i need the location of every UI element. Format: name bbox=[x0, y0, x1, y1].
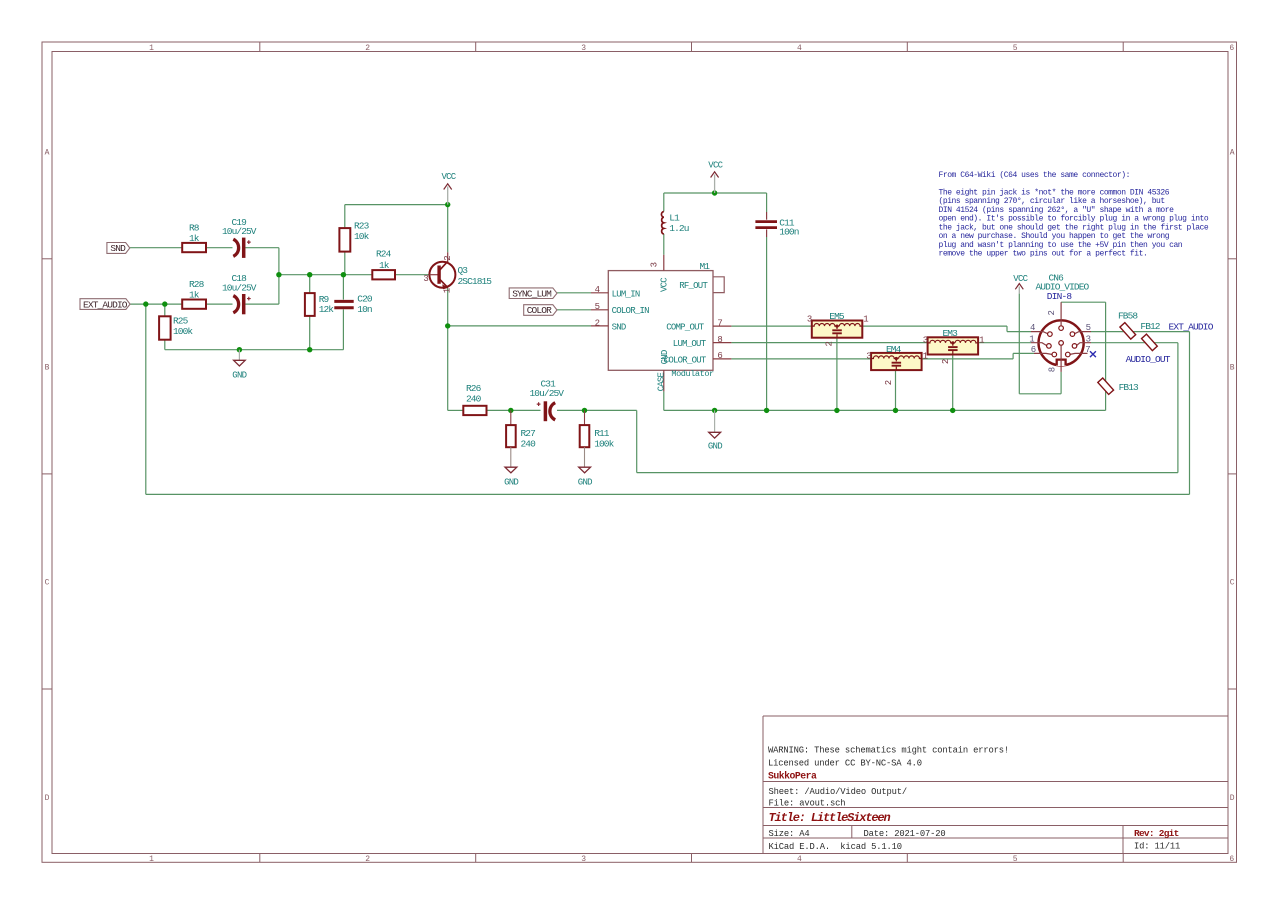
capacitor C20 bbox=[334, 294, 373, 315]
gnd symbol below M1 vcc rail bbox=[708, 410, 722, 451]
svg-text:3: 3 bbox=[581, 855, 586, 864]
svg-text:open end). It's possible to fo: open end). It's possible to forcibly plu… bbox=[939, 215, 1209, 224]
wire to R26 bbox=[448, 409, 464, 411]
global label COLOR bbox=[524, 305, 557, 317]
wire EXT_AUDIO loop left vertical bbox=[145, 304, 147, 494]
svg-text:EXT_AUDIO: EXT_AUDIO bbox=[83, 299, 128, 310]
wire bend to DIN pin4 bbox=[1007, 331, 1031, 333]
svg-text:1: 1 bbox=[1029, 334, 1034, 344]
junction bbox=[307, 272, 312, 277]
svg-text:1.2u: 1.2u bbox=[669, 223, 688, 234]
svg-text:1k: 1k bbox=[379, 260, 390, 271]
junction bbox=[712, 408, 717, 413]
no-connect X at pin7 bbox=[1090, 351, 1096, 357]
filter EM5 bbox=[807, 311, 868, 346]
svg-text:DIN-8: DIN-8 bbox=[1047, 291, 1073, 302]
wire R23 bottom bbox=[344, 252, 346, 275]
svg-text:3: 3 bbox=[423, 274, 428, 284]
svg-text:A: A bbox=[45, 149, 50, 158]
wire audio out bottom run bbox=[637, 472, 1178, 474]
vcc symbol above M1 bbox=[708, 161, 723, 193]
wire C18 to corner bbox=[246, 303, 279, 305]
svg-text:3: 3 bbox=[807, 315, 812, 325]
svg-text:6: 6 bbox=[717, 351, 722, 361]
svg-text:Q3: Q3 bbox=[458, 265, 469, 276]
svg-text:100k: 100k bbox=[173, 326, 193, 337]
svg-text:12k: 12k bbox=[319, 304, 335, 315]
wire EXT_AUDIO loop right vertical bbox=[1189, 332, 1191, 495]
svg-text:5: 5 bbox=[1013, 44, 1018, 53]
title block text bbox=[768, 746, 1180, 853]
resistor R23 bbox=[339, 221, 369, 252]
svg-text:7: 7 bbox=[1085, 345, 1090, 355]
wire DIN pin2 top run bbox=[1061, 301, 1106, 303]
wire M1 VCC rail bbox=[664, 192, 767, 194]
wire audio out right vertical bbox=[1177, 343, 1179, 473]
wire DIN pin5 to FB58 to corner bbox=[1091, 331, 1190, 333]
svg-text:Size: A4: Size: A4 bbox=[769, 829, 810, 839]
wire DIN shield down through FB13 bbox=[1105, 302, 1107, 410]
resistor R27 bbox=[506, 410, 536, 449]
modulator M1 bbox=[591, 255, 731, 392]
svg-text:3: 3 bbox=[1086, 334, 1091, 344]
wire R28 to C18 bbox=[206, 303, 233, 305]
svg-text:2: 2 bbox=[824, 342, 834, 347]
svg-text:R23: R23 bbox=[354, 221, 370, 232]
svg-text:Sheet: /Audio/Video Output/: Sheet: /Audio/Video Output/ bbox=[769, 787, 907, 797]
title block bbox=[763, 716, 1228, 854]
svg-text:File: avout.sch: File: avout.sch bbox=[769, 798, 846, 808]
svg-text:AUDIO_OUT: AUDIO_OUT bbox=[1126, 354, 1171, 365]
wire VCC top rail bbox=[345, 204, 448, 206]
ferrite bead FB12 bbox=[1140, 321, 1160, 350]
svg-text:2SC1815: 2SC1815 bbox=[458, 276, 493, 287]
junction bbox=[764, 408, 769, 413]
resistor R11 bbox=[580, 410, 615, 449]
svg-text:SND: SND bbox=[110, 243, 126, 254]
svg-text:EXT_AUDIO: EXT_AUDIO bbox=[1169, 321, 1214, 332]
transistor Q3 2SC1815 bbox=[423, 252, 492, 293]
svg-text:SND: SND bbox=[612, 323, 626, 333]
wire emitter to M1 SND pin bbox=[448, 325, 591, 327]
wire R9 top bbox=[309, 275, 311, 293]
svg-text:LUM_IN: LUM_IN bbox=[612, 289, 640, 299]
svg-text:GND: GND bbox=[708, 442, 722, 452]
wire Q3 emitter down bbox=[447, 288, 449, 411]
svg-text:FB13: FB13 bbox=[1119, 382, 1139, 393]
wire R24 to Q3 base bbox=[395, 274, 429, 276]
svg-text:(pins spanning 270°, circular: (pins spanning 270°, circular like a hor… bbox=[939, 197, 1165, 206]
resistor R25 bbox=[159, 316, 193, 340]
svg-text:FB12: FB12 bbox=[1140, 321, 1160, 332]
svg-text:The eight pin jack is *not* th: The eight pin jack is *not* the more com… bbox=[939, 188, 1170, 197]
svg-text:10u/25V: 10u/25V bbox=[222, 283, 257, 294]
wire EM3 to DIN pin1 bbox=[978, 342, 1031, 344]
wire M1 CASE to gnd rail bbox=[663, 391, 665, 410]
wire gnd rail bbox=[664, 409, 1106, 411]
wire C20 bottom bbox=[342, 309, 344, 349]
svg-text:VCC: VCC bbox=[660, 277, 670, 292]
svg-text:2: 2 bbox=[365, 44, 370, 53]
svg-text:Title: LittleSixteen: Title: LittleSixteen bbox=[769, 811, 891, 825]
svg-text:10k: 10k bbox=[354, 231, 370, 242]
ferrite bead FB13 bbox=[1098, 378, 1139, 394]
svg-text:6: 6 bbox=[1229, 44, 1234, 53]
svg-text:GND: GND bbox=[232, 371, 246, 381]
wire EM3 down to gnd rail bbox=[952, 355, 954, 411]
svg-text:240: 240 bbox=[521, 438, 537, 449]
svg-text:5: 5 bbox=[1013, 855, 1018, 864]
capacitor C19 bbox=[222, 217, 257, 258]
wire R8 to C19 bbox=[206, 247, 233, 249]
junction bbox=[307, 347, 312, 352]
svg-text:3: 3 bbox=[650, 262, 660, 267]
svg-text:4: 4 bbox=[595, 285, 600, 295]
svg-text:RF_OUT: RF_OUT bbox=[679, 281, 708, 291]
wire COMP_OUT to EM5 bbox=[731, 325, 811, 327]
wire SND row: label to R8 bbox=[130, 247, 182, 249]
svg-text:2: 2 bbox=[941, 359, 951, 364]
svg-text:6: 6 bbox=[1229, 855, 1234, 864]
svg-text:A: A bbox=[1230, 149, 1235, 158]
svg-text:100k: 100k bbox=[594, 438, 614, 449]
gnd symbol under R11 bbox=[578, 447, 592, 487]
svg-text:plug and wasn't planning to us: plug and wasn't planning to use the +5V … bbox=[939, 241, 1183, 250]
junction bbox=[893, 408, 898, 413]
svg-text:EM5: EM5 bbox=[829, 311, 845, 322]
svg-text:3: 3 bbox=[581, 44, 586, 53]
capacitor C11 bbox=[755, 212, 798, 238]
wire VCC bottom run bbox=[1019, 393, 1061, 395]
svg-text:VCC: VCC bbox=[442, 172, 457, 182]
svg-text:1: 1 bbox=[979, 336, 984, 346]
svg-text:2: 2 bbox=[365, 855, 370, 864]
svg-text:GND: GND bbox=[504, 478, 518, 488]
junction bbox=[950, 408, 955, 413]
capacitor C18 bbox=[222, 273, 257, 314]
junction bbox=[712, 190, 717, 195]
global label SND bbox=[107, 243, 130, 255]
svg-text:KiCad E.D.A. kicad 5.1.10: KiCad E.D.A. kicad 5.1.10 bbox=[769, 842, 902, 852]
junction bbox=[582, 408, 587, 413]
global label EXT_AUDIO bbox=[80, 299, 130, 311]
svg-text:10u/25V: 10u/25V bbox=[222, 226, 257, 237]
gnd symbol left bbox=[232, 350, 246, 381]
junction bbox=[508, 408, 513, 413]
svg-text:5: 5 bbox=[595, 302, 600, 312]
svg-text:GND: GND bbox=[660, 350, 670, 364]
svg-text:4: 4 bbox=[797, 44, 802, 53]
wire C19 to right corner bbox=[246, 247, 279, 249]
wire bend down bbox=[1006, 326, 1008, 332]
wire COLOR_OUT to EM4 bbox=[731, 358, 871, 360]
wire up to DIN pin8 bbox=[1060, 372, 1062, 394]
svg-text:2: 2 bbox=[884, 380, 894, 385]
svg-text:3: 3 bbox=[866, 351, 871, 361]
svg-text:VCC: VCC bbox=[1013, 274, 1028, 284]
svg-text:1: 1 bbox=[149, 44, 154, 53]
junction bbox=[276, 272, 281, 277]
junction bbox=[445, 202, 450, 207]
wire C20 top bbox=[342, 275, 344, 300]
wire Q3 collector bbox=[447, 205, 449, 253]
junction bbox=[162, 301, 167, 306]
connector CN6 DIN-8 bbox=[1029, 272, 1091, 372]
resistor R8 bbox=[182, 223, 206, 253]
capacitor C31 bbox=[530, 378, 565, 421]
svg-text:SukkoPera: SukkoPera bbox=[768, 771, 817, 782]
wire R23 top bbox=[344, 205, 346, 229]
svg-text:COLOR_IN: COLOR_IN bbox=[612, 306, 650, 316]
svg-text:R28: R28 bbox=[189, 279, 205, 290]
wire bend up bbox=[1012, 353, 1014, 359]
wire C31 to corner bbox=[557, 409, 637, 411]
wire vertical C19/C18 join bbox=[278, 248, 280, 304]
global label SYNC_LUM bbox=[509, 288, 557, 300]
svg-text:1k: 1k bbox=[189, 233, 200, 244]
svg-text:Modulator: Modulator bbox=[671, 369, 714, 379]
svg-text:remove the upper two pins out: remove the upper two pins out for a perf… bbox=[939, 250, 1148, 259]
wire EM4 down to gnd rail bbox=[895, 370, 897, 410]
svg-text:Rev: 2git: Rev: 2git bbox=[1134, 828, 1179, 839]
svg-text:From C64-Wiki (C64 uses the sa: From C64-Wiki (C64 uses the same connect… bbox=[939, 171, 1130, 180]
svg-text:D: D bbox=[1230, 794, 1235, 803]
svg-text:DIN 41524 (pins spanning 262°,: DIN 41524 (pins spanning 262°, a "U" sha… bbox=[939, 206, 1175, 215]
svg-text:SYNC_LUM: SYNC_LUM bbox=[512, 288, 552, 299]
svg-text:VCC: VCC bbox=[708, 161, 723, 171]
svg-text:10u/25V: 10u/25V bbox=[530, 388, 565, 399]
resistor R24 bbox=[372, 248, 395, 279]
wire LUM_OUT to EM3 bbox=[731, 342, 928, 344]
wire COLOR to M1 bbox=[557, 309, 591, 311]
svg-text:4: 4 bbox=[797, 855, 802, 864]
inductor L1 bbox=[661, 212, 688, 235]
junction bbox=[834, 408, 839, 413]
wire R9 bottom bbox=[309, 316, 311, 350]
svg-text:3: 3 bbox=[923, 336, 928, 346]
svg-text:240: 240 bbox=[466, 394, 482, 405]
svg-text:B: B bbox=[45, 364, 50, 373]
svg-text:1: 1 bbox=[149, 855, 154, 864]
filter EM4 bbox=[866, 344, 927, 385]
resistor R9 bbox=[305, 293, 334, 316]
svg-text:FB58: FB58 bbox=[1118, 311, 1138, 322]
junction bbox=[341, 272, 346, 277]
wire audio out down bbox=[636, 410, 638, 472]
svg-text:10n: 10n bbox=[357, 304, 372, 315]
wire EXT_AUDIO loop bottom bbox=[146, 493, 1190, 495]
svg-text:8: 8 bbox=[1047, 367, 1057, 372]
wire L1 bottom bbox=[663, 234, 665, 255]
svg-text:2: 2 bbox=[1047, 310, 1057, 315]
wire R26 to C31 bbox=[487, 409, 541, 411]
resistor R28 bbox=[182, 279, 206, 309]
svg-text:5: 5 bbox=[1086, 323, 1091, 333]
wire EM5 to bend bbox=[862, 325, 1007, 327]
junction bbox=[237, 347, 242, 352]
svg-text:on a new purchase. Should you: on a new purchase. Should you happen to … bbox=[939, 232, 1170, 241]
svg-text:100n: 100n bbox=[779, 227, 798, 238]
wire EXT_AUDIO label to R28 bbox=[130, 303, 182, 305]
note text block from C64-Wiki bbox=[939, 171, 1209, 259]
svg-text:2: 2 bbox=[443, 256, 453, 261]
svg-text:2: 2 bbox=[595, 319, 600, 329]
resistor R26 bbox=[463, 383, 486, 415]
junction bbox=[445, 323, 450, 328]
wire left ground rail bbox=[165, 349, 344, 351]
wire R25 top bbox=[164, 304, 166, 316]
svg-text:CASE: CASE bbox=[657, 372, 667, 391]
svg-text:EM4: EM4 bbox=[886, 344, 902, 355]
svg-text:B: B bbox=[1230, 364, 1235, 373]
wire DIN pin3 to FB12 to corner bbox=[1091, 342, 1178, 344]
wire bend to DIN pin6 bbox=[1013, 352, 1034, 354]
svg-text:8: 8 bbox=[717, 335, 722, 345]
svg-text:1: 1 bbox=[443, 288, 453, 293]
svg-text:COLOR: COLOR bbox=[527, 305, 552, 316]
svg-text:EM3: EM3 bbox=[943, 328, 959, 339]
ferrite bead FB58 bbox=[1118, 311, 1138, 340]
svg-text:Licensed under CC BY-NC-SA 4.0: Licensed under CC BY-NC-SA 4.0 bbox=[768, 759, 922, 769]
vcc symbol at DIN pin8 bbox=[1013, 274, 1028, 293]
svg-text:GND: GND bbox=[578, 478, 592, 488]
svg-text:R24: R24 bbox=[376, 248, 392, 259]
svg-text:Id: 11/11: Id: 11/11 bbox=[1134, 841, 1180, 851]
junction bbox=[143, 301, 148, 306]
svg-text:4: 4 bbox=[1030, 323, 1035, 333]
wire base row bbox=[279, 274, 372, 276]
wire L1 top bbox=[663, 193, 665, 212]
svg-text:LUM_OUT: LUM_OUT bbox=[673, 339, 707, 349]
svg-text:WARNING: These schematics migh: WARNING: These schematics might contain … bbox=[768, 746, 1009, 756]
svg-text:1: 1 bbox=[863, 315, 868, 325]
wire C11 top bbox=[766, 193, 768, 212]
svg-text:Date: 2021-07-20: Date: 2021-07-20 bbox=[864, 829, 946, 839]
wire EM5 down to gnd rail bbox=[836, 338, 838, 411]
wire EM4 to bend bbox=[922, 358, 1014, 360]
filter EM3 bbox=[923, 328, 984, 364]
svg-text:M1: M1 bbox=[700, 261, 711, 272]
svg-text:COMP_OUT: COMP_OUT bbox=[666, 323, 705, 333]
svg-text:D: D bbox=[45, 794, 50, 803]
svg-text:7: 7 bbox=[717, 318, 722, 328]
svg-text:R8: R8 bbox=[189, 223, 200, 234]
vcc symbol at Q3 collector bbox=[442, 172, 457, 205]
wire VCC to DIN pin8 down bbox=[1018, 294, 1020, 394]
gnd symbol under R27 bbox=[504, 447, 518, 487]
wire R25 bottom bbox=[164, 340, 166, 350]
wire C11 bottom to gnd rail bbox=[766, 237, 768, 410]
svg-text:C: C bbox=[1230, 579, 1235, 588]
svg-text:the jack, but one should get t: the jack, but one should get the right p… bbox=[939, 223, 1209, 232]
svg-text:6: 6 bbox=[1031, 345, 1036, 355]
wire SYNC_LUM to M1 bbox=[557, 292, 591, 294]
svg-text:1k: 1k bbox=[189, 290, 200, 301]
svg-text:C: C bbox=[45, 579, 50, 588]
